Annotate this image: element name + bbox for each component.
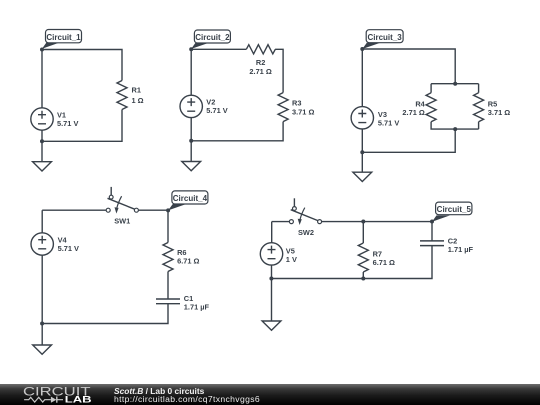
svg-text:5.71 V: 5.71 V	[206, 106, 227, 115]
svg-text:R3: R3	[292, 99, 301, 108]
svg-text:1.71 µF: 1.71 µF	[184, 303, 210, 312]
svg-text:3.71 Ω: 3.71 Ω	[292, 108, 314, 117]
svg-text:Circuit_3: Circuit_3	[367, 33, 402, 42]
svg-text:5.71 V: 5.71 V	[57, 119, 78, 128]
svg-text:Circuit_2: Circuit_2	[195, 33, 230, 42]
svg-text:1.71 µF: 1.71 µF	[448, 245, 474, 254]
svg-text:Circuit_4: Circuit_4	[173, 194, 208, 203]
svg-text:6.71 Ω: 6.71 Ω	[177, 256, 199, 265]
svg-text:LAB: LAB	[65, 395, 92, 405]
svg-text:6.71 Ω: 6.71 Ω	[373, 258, 395, 267]
svg-text:1 V: 1 V	[286, 255, 297, 264]
svg-text:R1: R1	[132, 86, 141, 95]
svg-text:Circuit_1: Circuit_1	[46, 33, 81, 42]
svg-text:R2: R2	[256, 58, 265, 67]
svg-text:Circuit_5: Circuit_5	[437, 205, 472, 214]
svg-text:5.71 V: 5.71 V	[58, 244, 79, 253]
svg-text:5.71 V: 5.71 V	[378, 119, 399, 128]
svg-text:SW1: SW1	[114, 216, 130, 225]
svg-text:V2: V2	[206, 98, 215, 107]
svg-text:1 Ω: 1 Ω	[132, 96, 144, 105]
svg-text:SW2: SW2	[298, 228, 314, 237]
svg-text:2.71 Ω: 2.71 Ω	[249, 67, 271, 76]
svg-text:3.71 Ω: 3.71 Ω	[488, 108, 510, 117]
svg-text:2.71 Ω: 2.71 Ω	[402, 108, 424, 117]
